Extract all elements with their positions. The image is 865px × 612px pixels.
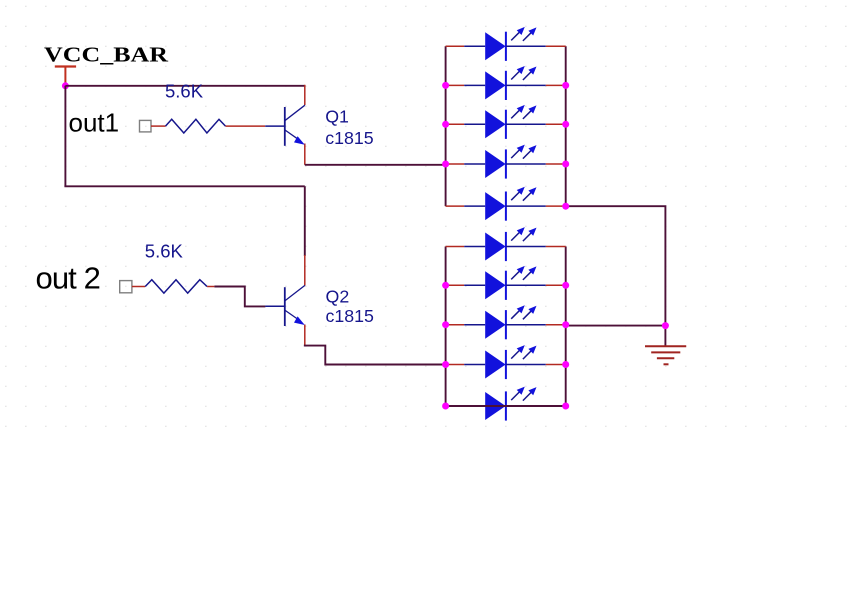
wire LED bank2 right rail (565, 247, 567, 407)
svg-text:Q1: Q1 (325, 106, 349, 126)
junction dot J4 (562, 82, 569, 89)
wire ground junction to LED bank2 middle (566, 325, 666, 327)
wire Q2 collector net (vertical) (304, 186, 306, 256)
wire LED bank1 left rail (445, 46, 447, 206)
wire LED bank2 bottom row net (446, 405, 566, 407)
svg-text:5.6K: 5.6K (165, 80, 204, 101)
port out 2 (36, 260, 132, 295)
wire VCC branch to Q2 (horizontal) (64, 185, 304, 187)
LED D10 (485, 387, 536, 421)
LED D7 (446, 266, 566, 300)
junction dot J16 (662, 322, 669, 329)
LED D2 (446, 66, 566, 100)
wire Q1 collector stub (vertical red) (304, 85, 306, 105)
junction dot J9 (442, 321, 449, 328)
wire Q1 emitter stub (red) (304, 144, 306, 165)
wire LED bank1 bottom to ground net (566, 206, 666, 325)
wire LED bank2 left rail (445, 247, 447, 407)
power symbol VCC_BAR (44, 43, 169, 84)
junction dot J14 (562, 361, 569, 368)
junction dot J15 (562, 403, 569, 410)
svg-text:5.6K: 5.6K (145, 240, 184, 261)
LED D1 (446, 27, 566, 61)
transistor Q2 c1815 (265, 285, 374, 326)
svg-text:VCC_BAR: VCC_BAR (44, 43, 169, 67)
ground (645, 346, 686, 364)
svg-text:c1815: c1815 (326, 306, 375, 326)
wire Q2 emitter stub (red) (304, 325, 306, 346)
wire VCC down branch (64, 86, 66, 187)
svg-text:out 2: out 2 (36, 260, 100, 295)
junction dot J3 (442, 161, 449, 168)
port out1 (69, 107, 152, 137)
wire ground stem (664, 326, 666, 347)
svg-text:out1: out1 (69, 107, 120, 137)
LED D5 (446, 187, 566, 221)
junction dot J5 (562, 121, 569, 128)
transistor Q1 c1815 (265, 105, 374, 148)
LED D4 (446, 145, 566, 179)
junction dot J1 (442, 82, 449, 89)
junction dot J12 (562, 282, 569, 289)
junction dot J6 (562, 161, 569, 168)
wire VCC rail to Q1 collector (horizontal) (65, 85, 304, 87)
junction dot VCC node (62, 82, 69, 89)
resistor R2 5.6K (132, 240, 215, 293)
wire Q2 collector stub (red) (304, 255, 306, 286)
LED D9 (446, 345, 566, 379)
LED D8 (446, 305, 566, 339)
LED D6 (446, 227, 566, 261)
resistor R1 5.6K (151, 80, 265, 133)
LED D3 (446, 105, 566, 139)
junction dot J11 (442, 403, 449, 410)
wire R2 to Q2 base (staircase) (214, 287, 265, 307)
junction dot J13 (562, 321, 569, 328)
junction dot J8 (442, 282, 449, 289)
junction dot J10 (442, 361, 449, 368)
svg-text:Q2: Q2 (326, 287, 350, 307)
wire LED bank1 right rail (565, 46, 567, 206)
junction dot J7 (562, 203, 569, 210)
wire Q1 emitter to LED bank 1 (305, 164, 446, 166)
svg-text:c1815: c1815 (325, 128, 374, 148)
wire Q2 emitter staircase to LED bank 2 (305, 345, 446, 365)
junction dot J2 (442, 121, 449, 128)
